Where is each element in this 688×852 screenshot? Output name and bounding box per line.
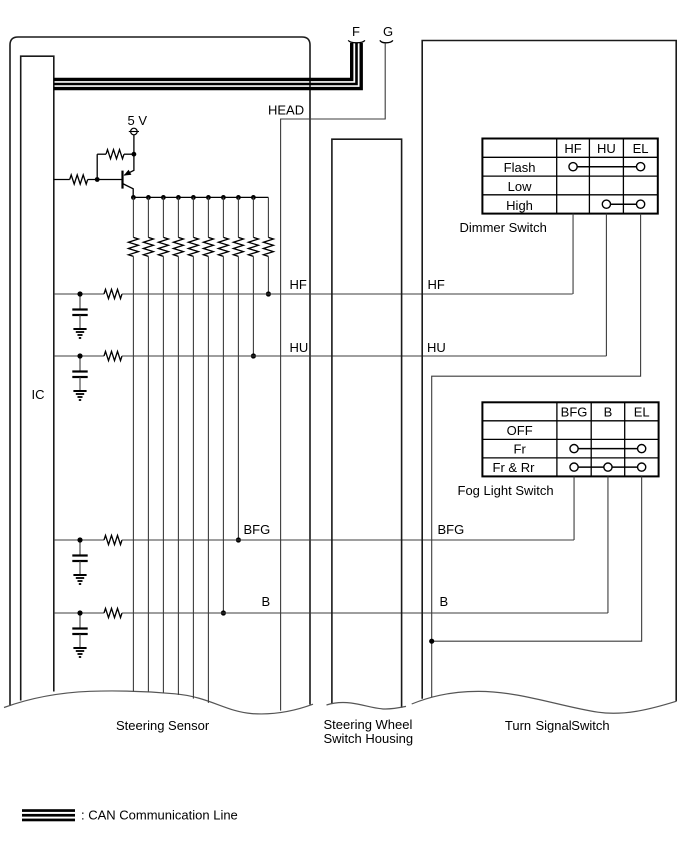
svg-text:: CAN Communication Line: : CAN Communication Line bbox=[81, 807, 238, 822]
svg-text:Steering Wheel: Steering Wheel bbox=[324, 717, 413, 732]
svg-text:HU: HU bbox=[427, 340, 446, 355]
svg-text:Switch Housing: Switch Housing bbox=[324, 731, 414, 746]
svg-text:OFF: OFF bbox=[507, 423, 533, 438]
svg-text:BFG: BFG bbox=[244, 522, 271, 537]
svg-text:F: F bbox=[352, 24, 360, 39]
svg-text:Dimmer Switch: Dimmer Switch bbox=[460, 220, 547, 235]
svg-text:HF: HF bbox=[564, 141, 581, 156]
svg-text:BFG: BFG bbox=[561, 405, 588, 420]
svg-text:Switch: Switch bbox=[571, 718, 609, 733]
svg-text:EL: EL bbox=[634, 405, 650, 420]
svg-text:B: B bbox=[604, 405, 613, 420]
svg-text:Fog Light Switch: Fog Light Switch bbox=[458, 483, 554, 498]
svg-text:Steering Sensor: Steering Sensor bbox=[116, 718, 210, 733]
svg-text:Low: Low bbox=[508, 179, 532, 194]
svg-text:B: B bbox=[262, 594, 271, 609]
svg-text:Fr: Fr bbox=[514, 442, 527, 457]
svg-text:HEAD: HEAD bbox=[268, 103, 304, 118]
svg-text:B: B bbox=[440, 594, 449, 609]
svg-text:Turn: Turn bbox=[505, 718, 531, 733]
svg-text:HF: HF bbox=[428, 277, 445, 292]
svg-text:Flash: Flash bbox=[504, 160, 536, 175]
svg-text:G: G bbox=[383, 24, 393, 39]
svg-text:5 V: 5 V bbox=[128, 113, 148, 128]
svg-text:EL: EL bbox=[633, 141, 649, 156]
svg-text:IC: IC bbox=[32, 387, 45, 402]
svg-text:High: High bbox=[506, 198, 533, 213]
svg-text:HU: HU bbox=[290, 340, 309, 355]
svg-text:HF: HF bbox=[290, 277, 307, 292]
svg-text:BFG: BFG bbox=[438, 522, 465, 537]
svg-text:Signal: Signal bbox=[536, 718, 572, 733]
svg-text:HU: HU bbox=[597, 141, 616, 156]
svg-text:Fr & Rr: Fr & Rr bbox=[493, 460, 536, 475]
